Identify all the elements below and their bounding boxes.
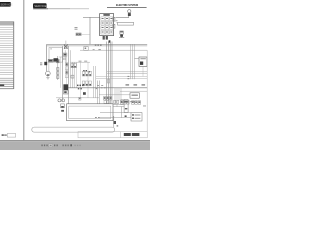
svg-text:SERVICE: SERVICE (0, 3, 12, 7)
svg-text:SERVICE: SERVICE (34, 4, 46, 8)
svg-text:ELECTRIC SYSTEM: ELECTRIC SYSTEM (116, 4, 138, 7)
